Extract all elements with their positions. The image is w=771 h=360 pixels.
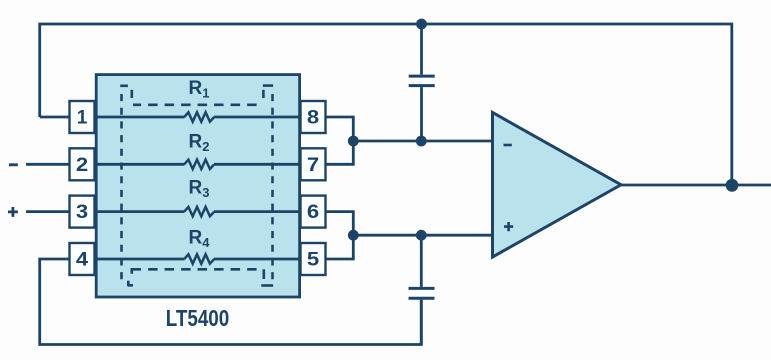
dashed inner bottom bracket rail: [148, 268, 257, 271]
pin 4 box: [70, 243, 95, 275]
pin 3 box: [70, 196, 95, 228]
svg-text:7: 7: [307, 155, 319, 176]
wire row4 right lead: [214, 258, 302, 261]
capacitor C2 bottom leads: [420, 235, 423, 287]
capacitor C1 plates: [409, 75, 435, 78]
wire row1 right lead: [214, 116, 302, 119]
svg-text:8: 8: [307, 108, 319, 129]
capacitor C2 plates: [409, 287, 435, 290]
svg-text:6: 6: [307, 202, 319, 223]
pin 7 box: [301, 148, 326, 180]
dashed outline top-right stub: [263, 84, 273, 87]
op-amp U1: [493, 113, 622, 258]
svg-text:1: 1: [77, 108, 88, 129]
dashed outline bottom-left stub: [128, 284, 133, 287]
junction dot node B cap: [416, 230, 427, 241]
dashed outline left vertical: [120, 94, 123, 282]
pin 2 box: [70, 148, 95, 180]
wire op-amp output: [621, 184, 771, 187]
LT5400 package body: [96, 75, 299, 297]
wire minus input to pin2: [26, 163, 70, 166]
wire row2 left lead: [94, 163, 185, 166]
junction dot top cap: [416, 19, 427, 30]
svg-text:5: 5: [307, 250, 320, 271]
pin 1 box: [70, 101, 95, 133]
dashed outline bottom-left foot: [127, 281, 130, 286]
wire row4 left lead: [94, 258, 185, 261]
wire node B to op-amp plus input: [353, 234, 494, 237]
resistor R4: [184, 254, 214, 263]
resistor R1: [184, 112, 214, 121]
junction dot node A cap: [416, 136, 427, 147]
svg-text:4: 4: [76, 250, 89, 271]
junction dot node A bus: [348, 136, 359, 147]
wire node A to op-amp minus input: [353, 140, 494, 143]
wire pin1 stub: [40, 116, 70, 119]
pin 5 box: [301, 243, 326, 275]
dashed outline right vertical: [271, 94, 274, 282]
resistor R2: [184, 160, 214, 169]
svg-text:LT5400: LT5400: [166, 305, 230, 331]
wire row3 right lead: [214, 210, 302, 213]
dashed inner top bracket rail: [133, 104, 257, 107]
dashed inner top bracket right leg: [262, 90, 265, 98]
pin 6 box: [301, 196, 326, 228]
wire row1 left lead: [94, 116, 185, 119]
dashed inner top bracket left leg: [131, 90, 134, 98]
wire pin8 to node A: [326, 117, 354, 141]
wire row3 left lead: [94, 210, 185, 213]
minus input terminal sign: [9, 163, 18, 166]
wire pin7 to node A: [326, 141, 354, 164]
dashed outline bottom-right stub: [261, 284, 273, 287]
junction dot node B bus: [348, 230, 359, 241]
wire pin4 bottom feedback to plus node: [40, 259, 422, 345]
svg-text:3: 3: [76, 202, 88, 223]
dashed outline top-left stub: [120, 85, 128, 88]
dashed inner bottom bracket corner: [132, 269, 141, 274]
wire plus input to pin3: [26, 210, 70, 213]
dashed inner bottom bracket right leg: [262, 269, 265, 279]
resistor R3: [184, 207, 214, 216]
svg-text:2: 2: [76, 155, 88, 176]
wire pin6 to node B: [326, 212, 354, 236]
junction dot output node: [726, 179, 739, 192]
pin 8 box: [301, 101, 326, 133]
wire row2 right lead: [214, 163, 302, 166]
plus input terminal sign: [8, 207, 18, 217]
wire top feedback from pin1 to output node: [40, 24, 732, 185]
wire pin5 to node B: [326, 235, 354, 259]
capacitor C1 top leads: [420, 24, 423, 75]
